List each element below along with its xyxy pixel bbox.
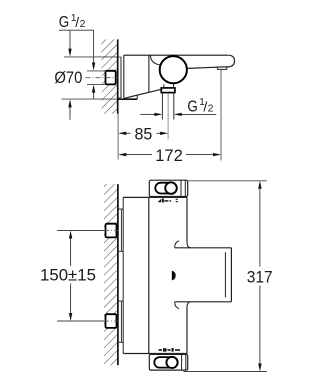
aerator nub under spout <box>217 67 227 70</box>
top handle grip (stadium) <box>155 183 176 194</box>
dimension 150±15 <box>40 231 104 322</box>
top handle housing (plan view) <box>149 180 187 196</box>
thermostat knob circle (side view) <box>160 56 187 83</box>
escutcheon flange on wall <box>118 57 121 98</box>
wall face line (side view) <box>117 39 119 113</box>
svg-text:2: 2 <box>208 103 214 115</box>
nut edge extension stubs <box>87 71 106 85</box>
svg-text:G: G <box>59 14 69 31</box>
svg-text:317: 317 <box>247 268 273 287</box>
wall face line (plan view) <box>117 184 119 365</box>
bottom handle grip (stadium) <box>154 357 177 368</box>
bottom inlet escutcheon (plan view) <box>119 301 124 342</box>
diverter mark (half disc) on body <box>172 271 176 281</box>
leader for G 1/2 top <box>59 30 95 99</box>
svg-text:85: 85 <box>135 125 153 144</box>
svg-text:Ø70: Ø70 <box>54 68 82 87</box>
shower outlet pipe G1/2 <box>162 93 173 120</box>
pipe center line (extension for 85 dim) <box>167 93 169 139</box>
bottom inlet S-union nut (plan view) <box>104 314 119 328</box>
markings under top housing <box>158 199 178 203</box>
svg-text:172: 172 <box>155 146 183 165</box>
spout (side view) with rounded tip <box>188 55 235 68</box>
wall hatching (plan view) <box>104 184 118 365</box>
dimension 317 <box>183 181 272 372</box>
bottom handle knob circle <box>166 357 177 368</box>
leader arrows for G 1/2 outlet <box>140 113 216 116</box>
svg-text:2: 2 <box>80 18 86 30</box>
body back edge against wall <box>122 197 124 353</box>
shower outlet: connector under circle <box>164 84 174 88</box>
bottom handle housing (plan view) <box>149 354 187 370</box>
top handle knob circle <box>165 182 177 194</box>
body main rectangle (plan view) <box>123 197 187 353</box>
spout protrusion (plan view) <box>175 241 232 309</box>
markings above bottom housing <box>159 348 181 352</box>
dimension Ø70 <box>54 31 117 120</box>
svg-text:G: G <box>187 99 197 116</box>
wall hatching (side view) <box>102 39 118 113</box>
dimension 85 <box>118 125 168 144</box>
top inlet escutcheon (plan view) <box>119 209 124 251</box>
label G 1/2 (at shower outlet) <box>187 97 213 116</box>
label G 1/2 (top left) <box>59 13 86 31</box>
shower outlet nut <box>161 88 175 93</box>
top inlet S-union nut (plan view) <box>104 224 119 238</box>
dimension 172 <box>118 70 221 165</box>
fillet between body top and knob circle <box>150 55 160 65</box>
svg-text:150±15: 150±15 <box>40 266 96 285</box>
S-union nut on wall <box>86 71 118 85</box>
wall extension line continuing below wall (for 85/172 dims) <box>117 114 119 160</box>
svg-text:/: / <box>75 14 79 30</box>
mixer body (side view) <box>118 55 228 99</box>
